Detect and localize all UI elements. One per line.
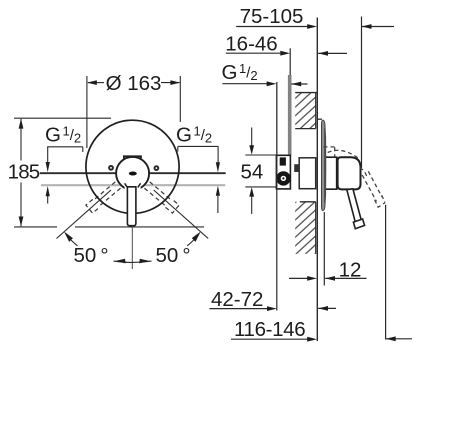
svg-text:Ø 163: Ø 163 — [106, 72, 162, 95]
12 dimension — [323, 212, 325, 286]
svg-text:116-146: 116-146 — [234, 318, 305, 341]
wall face / long extension line — [316, 18, 318, 342]
hub bottom gap for lever flare — [125, 183, 141, 192]
dashed alternate handle position (side) — [324, 147, 386, 207]
lever handle (front) — [127, 187, 135, 226]
lever arm (side) — [347, 189, 362, 224]
svg-text:75-105: 75-105 — [240, 5, 304, 28]
supply pipe (side view) — [288, 75, 292, 155]
lever boss (side) — [338, 157, 361, 189]
Ø163 dimension — [87, 76, 180, 148]
75-105 right extension line — [361, 17, 363, 169]
dashed rotated lever left (50°) — [86, 181, 121, 213]
escutcheon plate circle Ø163 — [86, 120, 179, 213]
escutcheon plate (side) — [317, 118, 322, 120]
angle arc arrow right — [192, 232, 201, 242]
rough-in box — [299, 158, 316, 189]
54 dimension — [245, 128, 276, 215]
connector nut — [294, 164, 300, 172]
supply pipe line lower gray (front view) — [41, 184, 225, 186]
svg-text:185: 185 — [8, 161, 40, 184]
cartridge sleeve — [322, 157, 337, 189]
svg-text:16-46: 16-46 — [225, 32, 277, 55]
valve square port — [280, 157, 286, 165]
centerline below lever — [131, 226, 133, 269]
angle arc arrow left — [64, 232, 73, 242]
wall upper band — [295, 93, 316, 129]
hub center dot — [129, 172, 137, 176]
valve body — [276, 155, 290, 189]
wall lower band — [295, 202, 316, 254]
116-146 right extension line — [385, 205, 387, 340]
hub side marks — [109, 166, 113, 170]
lever flare ticks — [125, 183, 128, 187]
angle extension line left — [57, 190, 112, 239]
lever foot (side) — [353, 219, 364, 229]
supply pipe line upper (front view) — [40, 172, 226, 174]
svg-text:12: 12 — [339, 259, 362, 282]
valve outlet circle — [276, 171, 290, 185]
svg-text:50 °: 50 ° — [155, 244, 190, 267]
hub flat cap — [124, 156, 141, 159]
handle hub circle — [116, 157, 149, 190]
185 dimension — [14, 118, 111, 226]
angle extension line right — [154, 190, 209, 239]
16-46 extension line — [289, 48, 291, 75]
42-72 left extension line (pipe left edge extended) — [276, 155, 278, 310]
svg-text:42-72: 42-72 — [211, 288, 263, 311]
svg-text:50 °: 50 ° — [73, 244, 108, 267]
dashed rotated lever right (50°) — [144, 181, 179, 213]
svg-text:54: 54 — [240, 160, 263, 183]
rotation arc with arrows — [114, 261, 152, 262]
185 bottom extension line — [14, 226, 57, 228]
